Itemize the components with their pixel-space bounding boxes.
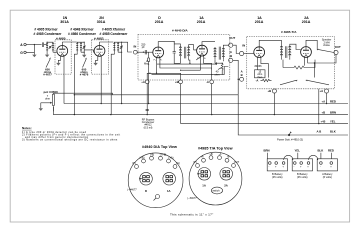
T/A pin circles <box>196 156 236 168</box>
rf transformer 3 secondary <box>117 43 119 52</box>
svg-text:G: G <box>20 51 23 55</box>
svg-text:-A: -A <box>206 80 209 84</box>
det IN jack <box>133 50 137 54</box>
svg-text:F-: F- <box>160 59 162 61</box>
svg-text:# 4005 Xformer: # 4005 Xformer <box>34 28 58 32</box>
svg-text:Power Swit. # 4910 (S): Power Swit. # 4910 (S) <box>277 138 303 142</box>
rf transformer 3 primary <box>113 43 115 52</box>
OUT jack A <box>229 43 233 47</box>
dashed box stage 2 <box>92 40 109 74</box>
T/A pin labels <box>193 152 239 164</box>
bus wire 45V <box>181 123 348 125</box>
rf transformer 2 secondary <box>80 43 82 52</box>
battery box 3 <box>317 159 337 179</box>
antenna coil primary <box>46 43 48 52</box>
xformer label 2 <box>68 28 97 37</box>
svg-text:IN: IN <box>134 45 137 49</box>
svg-text:This schematic is 11" x 17": This schematic is 11" x 17" <box>170 213 213 217</box>
svg-text:( A-B): ( A-B) <box>160 153 167 157</box>
pot ground <box>40 103 42 108</box>
svg-text:BRN: BRN <box>264 149 270 153</box>
svg-text:(+A): (+A) <box>169 156 174 160</box>
svg-text:BLK: BLK <box>318 149 324 153</box>
pointer arrow stage2 <box>83 59 87 68</box>
svg-text:# 4940 D/A: # 4940 D/A <box>172 28 188 32</box>
amp jack drops <box>274 89 326 124</box>
grid leak <box>148 52 150 103</box>
wire OUT B down <box>233 60 238 95</box>
svg-text:+A: +A <box>141 80 145 84</box>
tube label 1N <box>60 16 69 24</box>
audio transformer 2 <box>214 45 229 63</box>
svg-text:# 4985-T/A: # 4985-T/A <box>281 30 297 34</box>
T/A socket 1A <box>198 168 211 188</box>
D/A socket D <box>140 172 153 193</box>
svg-text:〈- #4677: 〈- #4677 <box>126 187 138 191</box>
svg-text:BLK: BLK <box>330 130 336 134</box>
triode 1A second <box>254 40 282 57</box>
grid leak value <box>144 59 150 66</box>
wire A to coil <box>26 44 41 46</box>
svg-text:+A: +A <box>320 89 324 93</box>
svg-text:-B: -B <box>229 54 232 58</box>
vert from xfmr2 primary <box>74 94 75 95</box>
svg-text:IN: IN <box>242 43 245 47</box>
drop from xfmr3 secondary <box>118 48 122 104</box>
tube5 filament wires <box>258 57 269 77</box>
svg-text:+A: +A <box>200 155 203 159</box>
OUT jack amp <box>334 50 338 54</box>
svg-text:choke: choke <box>323 43 330 47</box>
svg-text:B: B <box>241 73 243 77</box>
bus wire B2 upper <box>74 94 238 96</box>
amp fuse box <box>255 70 266 78</box>
D/A pin circles <box>135 156 177 168</box>
svg-text:D: D <box>145 189 147 193</box>
wire OUT A to IN <box>233 45 240 53</box>
svg-text:(P): (P) <box>193 160 197 164</box>
T/A oval hole <box>211 187 222 194</box>
bus wire A-B <box>238 95 348 135</box>
tube label 2N <box>97 16 106 24</box>
potentiometer values <box>45 94 50 101</box>
ground below stage2 secondary <box>81 52 84 55</box>
svg-text:+B: +B <box>175 80 179 84</box>
triode 1N <box>57 42 77 56</box>
svg-text:switch: switch <box>213 189 221 193</box>
svg-text:# 4005 Xformer: # 4005 Xformer <box>102 28 126 32</box>
resistor label stage2 <box>80 67 89 76</box>
tube label 1A second <box>255 16 264 24</box>
svg-text:201A: 201A <box>197 20 206 24</box>
wire pot to bus <box>53 93 112 95</box>
svg-text:OUT: OUT <box>335 45 341 49</box>
svg-text:(45 volts): (45 volts) <box>272 175 283 179</box>
dashed box detector unit <box>138 34 230 80</box>
antenna series condenser <box>42 42 43 47</box>
D/A pin labels <box>132 153 180 165</box>
amp resistor <box>283 60 315 69</box>
rheostat pointer arrow <box>218 68 221 70</box>
svg-text:-B: -B <box>227 155 230 159</box>
svg-text:(P): (P) <box>132 161 136 165</box>
b+ drop from xfmr2 primary <box>74 52 77 114</box>
ground at input <box>32 55 36 58</box>
svg-text:-: - <box>294 166 295 169</box>
T/A socket 2A <box>220 168 233 188</box>
svg-text:201A: 201A <box>302 20 311 24</box>
D/A socket 1A <box>163 172 176 193</box>
svg-text:-A: -A <box>256 78 259 82</box>
tuning condenser stage3 <box>120 42 123 49</box>
svg-text:OUT: OUT <box>234 160 240 164</box>
wire secondary2 to tube2 grid <box>84 50 94 52</box>
rheostat under 1A <box>196 56 201 60</box>
triode 2A <box>301 40 318 57</box>
amp rheostat arrows <box>280 80 297 85</box>
det jack drops <box>147 84 212 124</box>
tuning condenser stage1 <box>49 46 52 49</box>
cathode ground stage1 <box>58 56 60 63</box>
svg-text:#4940 D/A Top View: #4940 D/A Top View <box>142 145 177 149</box>
svg-text:+B: +B <box>268 89 272 93</box>
bus wire plus B <box>74 114 348 116</box>
svg-text:(45 volts): (45 volts) <box>297 175 308 179</box>
battery box 1 <box>267 159 287 179</box>
svg-text:(6 volts): (6 volts) <box>323 175 332 179</box>
wire xfmr3 top to det jack <box>122 42 132 52</box>
svg-text:1A: 1A <box>167 189 171 193</box>
svg-text:YEL: YEL <box>330 119 336 123</box>
output transformer <box>280 40 300 59</box>
rf transformer 2 primary <box>76 43 78 52</box>
pot bottom drop <box>53 106 74 114</box>
wire G to ground <box>26 45 34 55</box>
IN jack amp <box>240 51 244 55</box>
svg-text:Meg.: Meg. <box>144 62 150 66</box>
resistor label stage1 <box>43 67 52 76</box>
pointer arrow stage1 <box>46 59 50 68</box>
rf bypass condenser <box>146 109 149 110</box>
tuning condenser stage2 <box>83 42 86 52</box>
dashed box stage 1 <box>55 40 71 74</box>
wire secondary to tube1 grid <box>53 51 57 53</box>
svg-text:# 4985 Condenser: # 4985 Condenser <box>34 32 63 36</box>
coil top tie stage1 <box>47 42 53 43</box>
audio transformer 1 <box>174 44 193 64</box>
svg-text:-: - <box>320 166 321 169</box>
T/A socket arrow <box>197 173 201 175</box>
svg-text:201A: 201A <box>255 20 264 24</box>
tube label D <box>155 16 164 24</box>
svg-text:YEL: YEL <box>295 149 301 153</box>
filament drop tube2 <box>100 56 102 104</box>
triode 1A <box>194 42 216 56</box>
svg-text:# 4985 Condenser: # 4985 Condenser <box>100 32 129 36</box>
triode D <box>153 42 174 58</box>
svg-text:#4066: #4066 <box>255 64 263 68</box>
svg-text:(+B): (+B) <box>140 156 145 160</box>
grid condenser <box>145 50 146 54</box>
svg-text:ohm: ohm <box>45 97 50 101</box>
1A filament wires <box>181 56 212 71</box>
svg-text:(-B): (-B) <box>150 153 154 157</box>
svg-text:BRN: BRN <box>330 110 336 114</box>
svg-text:+B: +B <box>209 152 212 156</box>
svg-text:rheo: rheo <box>257 75 263 79</box>
svg-text:F-: F- <box>204 58 206 60</box>
battery jumper 1 <box>284 155 293 160</box>
output switch lever <box>317 49 334 52</box>
svg-text:-: - <box>269 166 270 169</box>
svg-text:(G): (G) <box>176 161 180 165</box>
plate bypass condenser <box>174 41 175 42</box>
cathode ground stage2 <box>96 56 98 63</box>
rf bypass label <box>142 117 155 129</box>
junction dots <box>216 64 217 65</box>
filament return wires <box>152 62 229 74</box>
svg-text:2A: 2A <box>224 183 228 187</box>
xformer label 1 <box>34 28 63 37</box>
triode 2N <box>94 42 113 56</box>
svg-text:301A: 301A <box>60 20 69 24</box>
grid condenser value <box>141 42 146 49</box>
svg-text:RED: RED <box>330 99 336 103</box>
svg-text:201A: 201A <box>155 20 164 24</box>
svg-text:RED: RED <box>328 149 334 153</box>
ground below primary <box>46 52 48 54</box>
wire jack to grid condenser <box>137 51 153 53</box>
coil top tie stage3 <box>114 42 121 43</box>
svg-text:-A: -A <box>219 152 222 156</box>
svg-text:(0.5 mf): (0.5 mf) <box>144 125 153 129</box>
filament rheostat R 40 ohm <box>215 63 223 74</box>
tube label 1A <box>197 16 206 24</box>
dashed box amplifier unit <box>247 37 335 89</box>
svg-text:+A: +A <box>322 99 326 103</box>
speaker note text <box>322 38 332 48</box>
svg-text:1A: 1A <box>202 183 206 187</box>
drop from xfmr3 primary <box>111 52 114 114</box>
svg-text:OUT: OUT <box>229 36 235 40</box>
det filament wires <box>147 57 212 80</box>
svg-text:# 4986 Condenser: # 4986 Condenser <box>68 32 97 36</box>
tube6 filament wires <box>304 57 314 78</box>
tube label 2A <box>302 16 311 24</box>
D/A bottom hole <box>156 195 160 199</box>
svg-text:A B: A B <box>317 130 322 134</box>
svg-text:301A: 301A <box>97 20 106 24</box>
top view T/A circle <box>189 152 242 205</box>
svg-text:# 4676: # 4676 <box>80 73 89 77</box>
svg-text:+B: +B <box>322 110 326 114</box>
power switch <box>289 132 290 135</box>
potentiometer <box>53 93 55 111</box>
coil top tie stage2 <box>77 42 84 43</box>
svg-text:Notes:: Notes: <box>22 126 32 130</box>
svg-text:+45: +45 <box>321 119 326 123</box>
wire IN to tube5 <box>244 53 254 55</box>
svg-text:ohm: ohm <box>215 72 220 76</box>
svg-text:pF: pF <box>142 45 145 49</box>
battery box 2 <box>292 159 312 179</box>
xformer label 3 <box>100 28 129 37</box>
secondary coil stage1 <box>52 43 54 52</box>
svg-text:# 4677: # 4677 <box>43 73 52 77</box>
bus wire plus A <box>64 103 348 105</box>
rheostat value label <box>215 70 220 77</box>
svg-text:# 4948 Xformer: # 4948 Xformer <box>70 28 94 32</box>
svg-text:#4985 T/A Top View: #4985 T/A Top View <box>198 146 233 150</box>
pot wiper <box>41 102 51 104</box>
battery jumper 2 <box>309 155 318 160</box>
svg-text:3) Numbers on conventional win: 3) Numbers on conventional windings are … <box>22 139 118 142</box>
D/A socket arrow <box>139 178 143 180</box>
filament drop tube1 <box>63 56 65 104</box>
top view D/A circle <box>128 153 183 208</box>
OUT jack B <box>229 58 233 62</box>
svg-text:〈- #4677: 〈- #4677 <box>186 196 198 200</box>
